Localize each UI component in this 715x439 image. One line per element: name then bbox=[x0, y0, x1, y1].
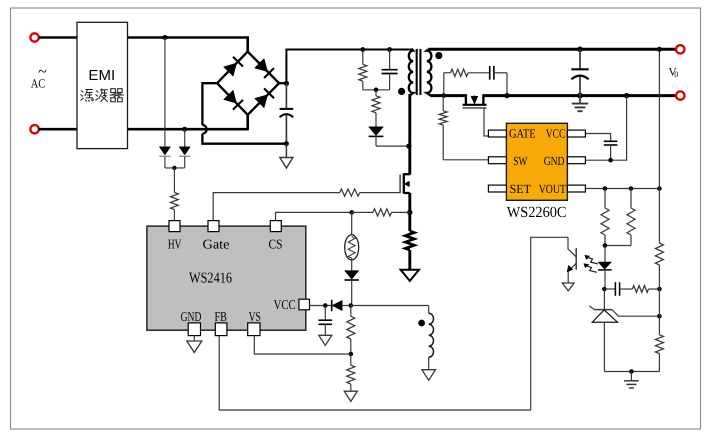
pin FB of U1 bbox=[215, 309, 227, 336]
svg-text:EMI: EMI bbox=[88, 68, 115, 84]
wire U1 Gate to R5 bbox=[213, 193, 340, 221]
ground VCC cap bbox=[319, 335, 332, 345]
terminal AC-L (top left input) bbox=[30, 33, 38, 41]
optocoupler U3 light arrows bbox=[584, 255, 598, 272]
svg-text:GND: GND bbox=[181, 309, 202, 324]
diode D8 bbox=[345, 271, 359, 280]
wire VCC node to aux winding L1 bbox=[351, 306, 429, 314]
node compensation to divider bbox=[657, 287, 662, 292]
wire bridge right vertex to DC+ node bbox=[279, 82, 288, 84]
pin HV of U1 bbox=[168, 221, 182, 252]
wire U1 CS up bbox=[276, 212, 352, 221]
wire Q2 gate to U2 GATE pin bbox=[484, 108, 488, 136]
ground optocoupler emitter bbox=[562, 283, 574, 291]
wire Q1 source down bbox=[408, 193, 411, 231]
ground output (earth) bbox=[572, 96, 588, 112]
pin VCC of U1 bbox=[274, 297, 310, 312]
wire J2 down to diode D6 bbox=[184, 129, 186, 147]
resistor R12 (opto bias 2) bbox=[605, 189, 635, 246]
wire secondary ground rail bbox=[604, 371, 659, 373]
pin GND of U1 bbox=[181, 309, 202, 336]
label V0 output bbox=[669, 66, 679, 79]
svg-text:GATE: GATE bbox=[509, 127, 536, 141]
wire U1 VS pin to divider bbox=[254, 335, 350, 354]
optocoupler U3 phototransistor bbox=[567, 237, 576, 283]
terminal Vo+ (top right output) bbox=[676, 45, 684, 53]
node output cap top bbox=[577, 47, 583, 53]
svg-text:AC: AC bbox=[31, 77, 46, 91]
ground U1 GND bbox=[187, 341, 202, 353]
svg-text:WS2416: WS2416 bbox=[189, 271, 232, 287]
EMI filter block bbox=[77, 22, 128, 148]
diode D5 bbox=[159, 147, 170, 157]
pin GND of U2 bbox=[544, 154, 586, 168]
node VCC-aux junction bbox=[349, 303, 354, 308]
wire J1 down to diode D5 bbox=[164, 38, 166, 147]
svg-text:Gate: Gate bbox=[203, 236, 230, 251]
node snubber tap on rail bbox=[441, 93, 446, 98]
pin VOUT of U2 bbox=[539, 182, 586, 196]
pin Gate of U1 bbox=[203, 221, 230, 252]
node VOUT divider tap bbox=[657, 186, 662, 191]
MOSFET Q1 bbox=[400, 173, 410, 193]
label 滤波器 (filter) drawn strokes bbox=[81, 89, 124, 102]
capacitor C3 (VCC) bbox=[319, 306, 333, 336]
wire U1 VCC pin to C3 node bbox=[309, 305, 331, 307]
node divider on Vo+ rail bbox=[657, 47, 662, 52]
wire AC-N terminal to EMI filter bbox=[39, 128, 77, 131]
terminal Vo- (bottom right output) bbox=[676, 91, 684, 99]
svg-text:VS: VS bbox=[249, 309, 261, 324]
node snubber return on rail bbox=[504, 93, 509, 98]
wire TL431 anode down bbox=[603, 322, 605, 371]
svg-text:0: 0 bbox=[674, 70, 678, 79]
resistor R11 (opto bias) bbox=[601, 189, 609, 246]
wire U1 GND pin to ground bbox=[193, 335, 195, 341]
terminal AC-N (bottom left input) bbox=[30, 125, 38, 133]
bridge diode D1 (left vertex to top vertex) bbox=[224, 57, 243, 76]
node DC- junction at C1 bbox=[284, 141, 289, 146]
node VCC cap junction bbox=[323, 303, 328, 308]
bridge diode D4 (bottom vertex to right vertex) bbox=[255, 88, 274, 107]
pin CS of U1 bbox=[269, 221, 283, 252]
node output cap bottom bbox=[577, 93, 583, 99]
node opto LED anode bbox=[603, 243, 608, 248]
resistor R3 (clamp series) bbox=[372, 90, 380, 127]
diode D6 bbox=[179, 147, 190, 157]
resistor R1 (HV startup) bbox=[171, 168, 179, 221]
transformer T1 secondary phase dot bbox=[435, 52, 442, 59]
wire bridge left vertex to DC- rail (hops over AC line) bbox=[202, 83, 286, 144]
wire transformer primary to Q1 drain bbox=[408, 94, 411, 175]
node J2 on bottom AC line bbox=[182, 127, 187, 132]
transformer T1 primary phase dot bbox=[398, 88, 405, 95]
ground aux winding bbox=[422, 370, 436, 381]
node LED cathode / compensation bbox=[602, 287, 607, 292]
node TL431 ref junction bbox=[657, 314, 662, 319]
resistor R4 (current sense, thick) bbox=[405, 231, 414, 250]
svg-text:GND: GND bbox=[544, 154, 565, 168]
IC U2 WS2260C body bbox=[506, 123, 567, 200]
node CS sense junction bbox=[407, 210, 412, 215]
resistor R15 (divider lower) bbox=[655, 316, 663, 371]
wire secondary bottom rail right segment bbox=[483, 94, 677, 97]
node secondary ground tap bbox=[629, 369, 634, 374]
wire joining D5 D6 cathodes bbox=[165, 157, 185, 168]
resistor R2 (clamp) bbox=[359, 50, 367, 90]
node GND riser on rail bbox=[624, 93, 629, 98]
node snubber C top bbox=[387, 47, 392, 52]
node VS junction bbox=[349, 352, 354, 357]
capacitor C5 (output) bbox=[571, 49, 588, 95]
wire U2 GND to output rail bbox=[585, 96, 626, 161]
label AC source bbox=[31, 64, 47, 91]
node CS filter junction bbox=[349, 210, 354, 215]
wire secondary top rail to output+ bbox=[429, 48, 678, 51]
wire bottom AC line EMI to bridge bbox=[128, 114, 248, 130]
svg-text:CS: CS bbox=[269, 236, 283, 251]
pin SW of U2 bbox=[488, 154, 527, 168]
inductor L1 (aux winding) bbox=[429, 313, 434, 370]
node HV junction bbox=[172, 166, 176, 170]
node clamp mid bbox=[374, 88, 379, 93]
wire clamp diode to drain node bbox=[376, 137, 409, 147]
svg-text:VOUT: VOUT bbox=[539, 182, 566, 196]
svg-text:HV: HV bbox=[168, 236, 182, 251]
svg-text:VCC: VCC bbox=[546, 127, 566, 141]
resistor R6 (CS filter) bbox=[373, 209, 392, 216]
resistor R9 + capacitor C4 (secondary snubber) bbox=[444, 66, 507, 96]
wire AC-L terminal to EMI filter bbox=[39, 36, 77, 39]
node J1 on top AC line bbox=[162, 35, 167, 40]
wire divider mid bbox=[658, 289, 660, 316]
wire CS junction to R6 bbox=[352, 211, 373, 213]
svg-text:SET: SET bbox=[510, 182, 532, 196]
svg-text:SW: SW bbox=[513, 154, 527, 168]
diode D7 (clamp) bbox=[369, 127, 384, 137]
svg-text:VCC: VCC bbox=[274, 297, 296, 312]
transformer T1 secondary winding bbox=[427, 49, 432, 96]
wire secondary bottom rail left segment bbox=[430, 94, 466, 97]
wire U2 VCC to C6 bbox=[585, 134, 610, 142]
wire Vo+ rail down to divider column bbox=[658, 49, 660, 188]
transformer T1 primary winding bbox=[409, 49, 413, 95]
pin VS of U1 bbox=[248, 309, 261, 336]
IC U1 WS2416 body bbox=[147, 226, 306, 330]
wire U2 VOUT feed bbox=[585, 188, 659, 190]
shunt regulator U4 TL431 bbox=[590, 289, 660, 322]
pin SET of U2 bbox=[488, 182, 531, 196]
node DC+ junction bbox=[284, 81, 289, 86]
wire U1 FB to optocoupler collector bbox=[219, 237, 568, 410]
resistor R5 (gate drive) bbox=[340, 189, 360, 196]
wire R6 to sense node bbox=[392, 211, 410, 213]
capacitor C2 (clamp) bbox=[382, 50, 398, 90]
wire RV1 to D8 bbox=[351, 258, 353, 270]
capacitor C7 + resistor R13 (compensation) bbox=[604, 282, 659, 296]
ground secondary (earth) bbox=[624, 372, 639, 389]
bridge diode D2 (top vertex to right vertex) bbox=[255, 59, 274, 78]
node VOUT R12 tap bbox=[629, 186, 634, 191]
ground power stage bbox=[401, 270, 419, 281]
node VOUT R11 tap bbox=[603, 186, 608, 191]
optocoupler U3 LED bbox=[598, 246, 612, 289]
capacitor C6 (U2 VCC) bbox=[604, 141, 618, 160]
transformer T1 core bbox=[417, 49, 421, 95]
varistor RV1 (oval resistor) bbox=[345, 235, 359, 260]
wire top AC line EMI to bridge bbox=[128, 36, 248, 52]
pin VCC of U2 bbox=[546, 127, 586, 141]
node drain-clamp junction bbox=[406, 144, 411, 149]
node snubber R top bbox=[360, 47, 365, 52]
wire R4 to power ground bbox=[408, 250, 411, 270]
node C6 on GND wire bbox=[608, 158, 613, 163]
ground primary DC- bbox=[280, 144, 293, 168]
wire clamp RC bottom link bbox=[363, 89, 390, 91]
inductor L1 phase dot bbox=[418, 320, 425, 327]
svg-text:WS2260C: WS2260C bbox=[507, 204, 567, 221]
ground VS divider bbox=[344, 391, 357, 401]
resistor R10 (SW sense) bbox=[439, 96, 447, 160]
MOSFET Q2 (sync rectifier) bbox=[463, 94, 487, 108]
wire D8 to VCC node bbox=[351, 280, 353, 305]
bridge diode D3 (left vertex to bottom vertex) bbox=[224, 90, 243, 109]
resistor R8 (VS lower) bbox=[347, 354, 355, 391]
pin GATE of U2 bbox=[488, 127, 536, 141]
wire CS junction down to RV1 bbox=[351, 212, 353, 235]
resistor R7 (VS upper) bbox=[347, 306, 355, 355]
wire R10 to U2 SW pin bbox=[443, 159, 488, 161]
diode D9 (VCC charge) bbox=[332, 300, 351, 311]
resistor R14 (divider upper) bbox=[655, 189, 663, 290]
capacitor C1 (bulk) bbox=[280, 83, 294, 143]
bridge rectifier BD1 arms bbox=[217, 52, 279, 115]
wire DC+ riser and top primary rail bbox=[285, 49, 411, 85]
wire R5 to Q1 gate bbox=[360, 192, 400, 194]
svg-text:FB: FB bbox=[215, 309, 227, 324]
